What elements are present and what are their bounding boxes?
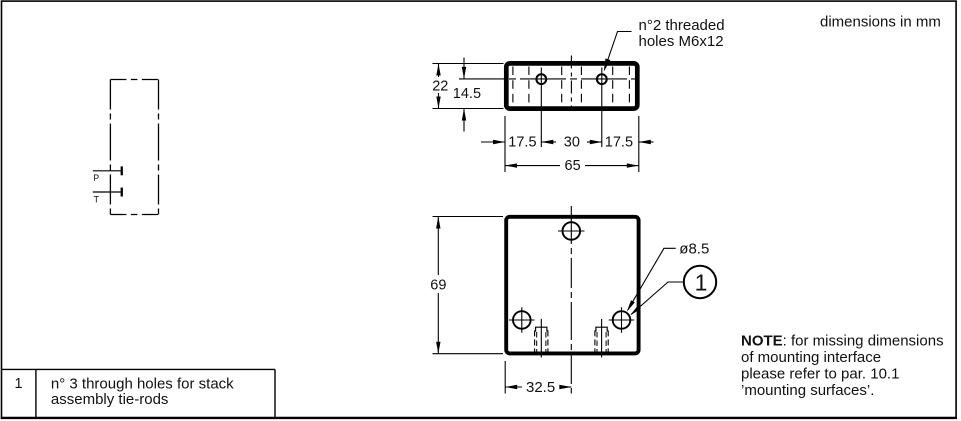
port T line [93, 191, 121, 193]
threaded hole 2 (top view) [597, 74, 607, 84]
legend table [2, 368, 276, 370]
svg-text:’mounting surfaces’.: ’mounting surfaces’. [741, 382, 874, 399]
port P line [93, 170, 121, 172]
threaded hole M6 right (front view, hidden) [595, 319, 608, 358]
svg-text:assembly tie-rods: assembly tie-rods [51, 391, 169, 408]
leader to hole 2 [605, 32, 632, 70]
svg-text:30: 30 [564, 135, 580, 151]
bottom-left tie-rod hole [513, 311, 531, 329]
svg-text:of mounting interface: of mounting interface [741, 349, 881, 366]
svg-text:T: T [94, 194, 100, 204]
svg-text:dimensions in mm: dimensions in mm [820, 13, 941, 30]
svg-text:please refer to par. 10.1: please refer to par. 10.1 [741, 365, 899, 382]
svg-text:32.5: 32.5 [526, 379, 555, 396]
top view vertical centerline [570, 56, 572, 107]
svg-text:17.5: 17.5 [605, 135, 633, 151]
TOP VIEW body outline [506, 63, 637, 108]
FRONT VIEW body outline [506, 217, 638, 354]
balloon 1 [684, 266, 716, 298]
svg-text:n° 3 through holes for stack: n° 3 through holes for stack [51, 375, 234, 392]
hole 2 centerline vertical [601, 68, 603, 148]
svg-text:ø8.5: ø8.5 [679, 241, 709, 258]
bottom-right tie-rod hole [613, 311, 631, 329]
front view vertical centerline [570, 206, 572, 394]
balloon leader [631, 282, 684, 314]
hole 1 centerline vertical [540, 68, 542, 148]
svg-text:14.5: 14.5 [453, 86, 481, 102]
svg-text:1: 1 [695, 269, 708, 295]
dim 32.5 [505, 386, 522, 388]
svg-text:NOTE: for missing dimensions: NOTE: for missing dimensions [741, 333, 944, 350]
svg-text:P: P [93, 173, 99, 183]
svg-text:holes M6x12: holes M6x12 [639, 33, 724, 50]
dim 69 [437, 217, 439, 276]
dims 17.5 / 30 / 17.5 [504, 116, 506, 172]
port P bar [121, 166, 123, 175]
svg-text:22: 22 [432, 79, 448, 95]
valve outline (phantom rectangle) [110, 80, 158, 215]
svg-text:1: 1 [15, 376, 23, 392]
dim 22 extension lines [433, 63, 504, 65]
dim 32.5 extension line [504, 361, 506, 394]
dim 22 [438, 64, 440, 78]
top hole horizontal crosshair [558, 230, 585, 232]
dim 69 extension lines [433, 216, 504, 218]
svg-text:65: 65 [565, 158, 581, 174]
threaded hole M6 left (front view, hidden) [535, 319, 548, 358]
threaded hole 1 (top view) [536, 74, 546, 84]
dim 65 [505, 165, 560, 167]
svg-text:17.5: 17.5 [508, 135, 536, 151]
svg-text:69: 69 [430, 277, 446, 293]
port T bar [121, 188, 123, 197]
top tie-rod hole [563, 222, 581, 240]
dim 14.5 [463, 58, 465, 79]
top view horizontal centerline [459, 78, 637, 80]
top view hidden dashed lines [513, 67, 630, 107]
svg-text:n°2 threaded: n°2 threaded [639, 17, 725, 34]
